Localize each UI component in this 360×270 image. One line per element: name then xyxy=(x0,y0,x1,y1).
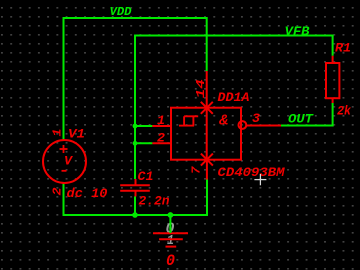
svg-text:R1: R1 xyxy=(335,41,351,56)
svg-text:VFB: VFB xyxy=(285,25,311,39)
svg-text:VDD: VDD xyxy=(110,5,133,19)
svg-text:2.2n: 2.2n xyxy=(139,194,170,209)
svg-text:2k: 2k xyxy=(337,104,351,119)
svg-text:OUT: OUT xyxy=(288,113,315,127)
svg-text:DD1A: DD1A xyxy=(218,90,250,105)
svg-text:C1: C1 xyxy=(138,169,154,184)
svg-text:2: 2 xyxy=(51,188,65,196)
svg-text:CD4093BM: CD4093BM xyxy=(218,166,286,180)
svg-text:dc 10: dc 10 xyxy=(67,186,108,201)
svg-text:0: 0 xyxy=(166,252,175,270)
svg-text:&: & xyxy=(218,113,228,129)
svg-text:3: 3 xyxy=(252,112,261,126)
svg-text:1: 1 xyxy=(157,114,165,128)
svg-text:7: 7 xyxy=(190,166,204,175)
svg-text:1: 1 xyxy=(51,129,65,137)
svg-text:V1: V1 xyxy=(68,127,85,142)
svg-text:V: V xyxy=(64,154,73,169)
svg-text:14: 14 xyxy=(194,79,208,98)
svg-text:2: 2 xyxy=(157,132,166,146)
